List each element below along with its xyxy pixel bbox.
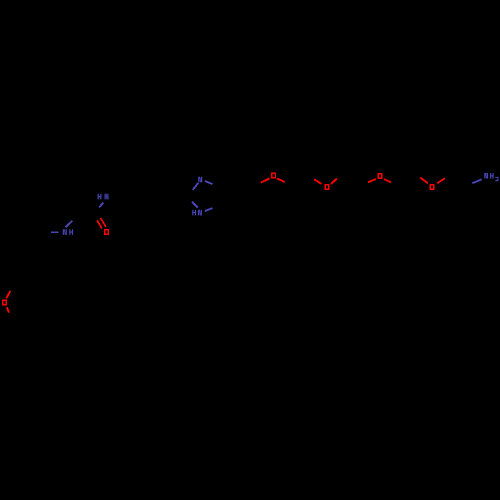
amine NH label: H	[69, 229, 70, 235]
ether O3 label	[378, 174, 382, 178]
amine NH2-CH2 bond stub	[472, 179, 481, 183]
benzimidazole N1-C2 bond stub	[193, 183, 199, 190]
benzylic chain to amine N	[36, 232, 38, 248]
ether O4 label	[430, 185, 434, 189]
methoxy O to CH3 bond stub	[7, 307, 9, 312]
benzimidazole N1 label	[198, 177, 199, 183]
amide HN label: H	[98, 194, 99, 200]
terminal NH2 label: N	[484, 173, 485, 179]
carbonyl O label	[105, 230, 109, 234]
peg carbons	[291, 176, 468, 187]
benzimidazole five ring carbons	[220, 185, 222, 207]
amide N-C(=O) bond stub	[99, 203, 103, 208]
methoxy O to aryl bond stub	[6, 291, 10, 298]
amine N-CH2(benzyl) bond stub	[51, 231, 59, 233]
ether O3 right bond stub	[384, 179, 391, 182]
central phenylene ring	[124, 178, 163, 214]
methoxyphenyl ring	[5, 248, 47, 284]
ether O4 left bond stub	[420, 178, 427, 184]
benzimidazole N3-C2 bond stub	[192, 202, 198, 208]
glycine CH2 bonds	[80, 213, 96, 215]
methoxy O label	[3, 300, 7, 304]
benzimidazole N3-C3a bond stub	[205, 208, 213, 211]
carbonyl C=O double bond line 1	[97, 220, 102, 228]
benzimidazole HN3 label: H	[192, 210, 193, 216]
ether O1 left bond stub	[261, 179, 270, 183]
terminal NH2 label: H	[490, 173, 491, 179]
ether O1 right bond stub	[277, 179, 285, 183]
carbonyl C=O double bond line 2	[101, 218, 106, 227]
ether O4 right bond stub	[437, 178, 445, 183]
ether O1 label	[272, 173, 276, 177]
ether O2 left bond stub	[314, 179, 321, 184]
amide HN label: N	[105, 194, 106, 200]
phenylene to benzimidazole C2	[163, 195, 187, 198]
amine N-CH2(glycine) bond stub	[66, 221, 73, 228]
ether O2 right bond stub	[331, 179, 337, 184]
invisible carbon skeleton (black on black)	[5, 174, 469, 285]
terminal NH2 subscript 2	[495, 176, 498, 179]
benzo ring	[221, 174, 259, 218]
benzimidazole HN3 label: N	[198, 210, 199, 216]
ether O3 left bond stub	[368, 179, 376, 182]
amine NH label: N	[63, 229, 64, 235]
ether O2 label	[325, 185, 329, 189]
benzimidazole N1-C7a bond stub	[205, 181, 213, 184]
